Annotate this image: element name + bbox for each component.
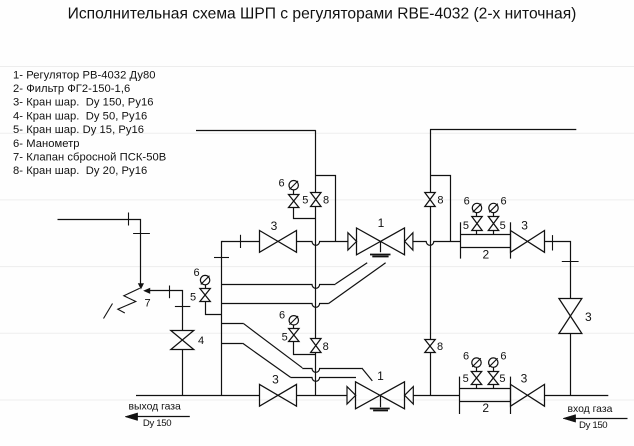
svg-text:7: 7 — [145, 298, 151, 310]
wire bottom pipe regulator to filter — [413, 395, 460, 397]
manometer 6 lower filter left — [472, 358, 481, 367]
wire bypass branch right — [431, 176, 451, 242]
wire right sensing vertical upper segment — [430, 129, 432, 192]
svg-text:6: 6 — [278, 178, 284, 190]
svg-text:4- Кран шар. Dy 50, Ру16: 4- Кран шар. Dy 50, Ру16 — [13, 110, 147, 122]
svg-text:5: 5 — [499, 373, 505, 385]
wire vent line left train — [196, 130, 316, 132]
wire vent line right train — [430, 129, 576, 131]
valve 8 right-lower — [425, 340, 435, 353]
wire upper pipe valve3 to regulator with crossing hop — [296, 242, 348, 246]
valve 3 upper-left — [260, 231, 297, 253]
flange tick before riser corner — [552, 235, 554, 250]
flange tick on relief vent vertical — [133, 233, 150, 235]
svg-text:7- Клапан сбросной ПСК-50В: 7- Клапан сбросной ПСК-50В — [13, 152, 166, 164]
regulator 1 upper - outlet cone — [405, 233, 413, 250]
wire center sensing vertical upper segment — [315, 130, 317, 193]
outlet arrow — [130, 416, 190, 418]
wire relief vertical to bottom pipe — [182, 350, 184, 396]
filter 2 upper - left plate — [460, 222, 462, 258]
relief valve 7 - spring — [118, 288, 140, 313]
relief valve 7 - arrow left and outlet line — [144, 288, 150, 293]
svg-text:Dy 150: Dy 150 — [143, 418, 171, 429]
flange tick on relief vertical — [175, 306, 190, 308]
flange tick on riser — [562, 261, 579, 263]
svg-text:8: 8 — [437, 194, 443, 206]
wire bypass branch left — [316, 176, 336, 242]
svg-text:5: 5 — [463, 220, 469, 232]
valve 5 upper filter left — [476, 213, 478, 217]
svg-text:Dy 150: Dy 150 — [579, 420, 607, 431]
svg-text:3: 3 — [585, 310, 592, 324]
filter 2 upper - body — [461, 234, 511, 236]
svg-text:1- Регулятор РВ-4032 Ду80: 1- Регулятор РВ-4032 Ду80 — [13, 69, 156, 81]
svg-text:выход газа: выход газа — [129, 401, 182, 412]
valve 3 lower-right — [511, 384, 545, 406]
valve 3 upper-right — [511, 231, 545, 253]
svg-text:5: 5 — [463, 373, 469, 385]
wire manometer stem upper-left — [293, 190, 295, 194]
regulator 1 upper - inlet cone — [348, 233, 357, 250]
svg-text:3- Кран шар. Dy 150, Ру16: 3- Кран шар. Dy 150, Ру16 — [13, 97, 154, 109]
svg-text:5: 5 — [190, 292, 196, 304]
wire relief vent horizontal — [58, 220, 141, 285]
valve 5 upper-left — [289, 195, 299, 208]
svg-text:3: 3 — [521, 371, 528, 385]
manometer 6 upper-left — [289, 181, 298, 190]
svg-text:5: 5 — [282, 332, 288, 344]
wire upper pipe to riser corner — [545, 242, 571, 299]
valve 4 — [171, 331, 194, 350]
svg-text:5: 5 — [302, 194, 308, 206]
svg-text:8: 8 — [323, 195, 329, 207]
wire upper pipe regulator to filter with crossing hop — [413, 242, 461, 246]
svg-text:8: 8 — [437, 341, 443, 353]
wire manometer connection center-lower — [294, 342, 316, 355]
wire outlet pipe — [136, 395, 260, 397]
svg-text:3: 3 — [521, 219, 528, 233]
svg-text:6- Манометр: 6- Манометр — [13, 138, 80, 150]
impulse line 2 upper regulator — [222, 304, 329, 308]
manometer 6 lower filter right — [489, 358, 498, 367]
regulator 1 lower - actuator symbol — [380, 395, 382, 407]
flange tick on relief outlet — [169, 286, 171, 299]
svg-text:6: 6 — [500, 351, 506, 363]
wire center sensing vertical lower segment — [315, 352, 317, 395]
wire manometer connection upper-left — [294, 208, 316, 219]
regulator 1 lower - outlet cone — [405, 387, 414, 404]
valve 3 riser — [559, 299, 582, 334]
svg-text:3: 3 — [272, 372, 279, 386]
valve 3 lower-left — [260, 384, 297, 406]
svg-text:вход газа: вход газа — [568, 404, 613, 415]
regulator 1 upper - actuator symbol — [380, 241, 382, 252]
svg-text:5- Кран шар. Dy 15, Ру16: 5- Кран шар. Dy 15, Ру16 — [13, 124, 144, 136]
flange tick on left return vertical — [214, 257, 229, 259]
manometer 6 upper filter right — [489, 203, 498, 212]
svg-text:6: 6 — [279, 310, 285, 322]
regulator 1 lower - body — [356, 382, 405, 409]
wire manometer stem center-lower — [293, 325, 295, 328]
wire bottom pipe valve3 to lower regulator — [296, 395, 347, 397]
valve 8 upper-left — [311, 193, 321, 207]
svg-text:1: 1 — [377, 369, 384, 383]
wire riser lower segment — [570, 333, 572, 395]
manometer 6 left return — [200, 275, 209, 284]
manometer 6 upper filter left — [472, 203, 481, 212]
svg-text:6: 6 — [193, 267, 199, 279]
valve 5 upper filter right — [493, 213, 495, 217]
filter 2 lower - right plate — [510, 377, 512, 414]
svg-text:8: 8 — [323, 341, 329, 353]
wire center sensing vertical mid segment — [315, 207, 317, 339]
regulator 1 upper - body — [357, 228, 405, 255]
wire right sensing vertical lower segment — [430, 353, 432, 396]
relief valve 7 - arrow down — [138, 284, 143, 289]
wire upper pipe from left corner to valve 3 — [222, 241, 260, 243]
wire right sensing vertical mid segment — [430, 207, 432, 340]
svg-text:6: 6 — [463, 351, 469, 363]
svg-text:Исполнительная схема ШРП с рег: Исполнительная схема ШРП с регуляторами … — [68, 6, 577, 23]
regulator 1 lower - inlet cone — [347, 387, 356, 404]
svg-text:2- Фильтр ФГ2-150-1,6: 2- Фильтр ФГ2-150-1,6 — [13, 83, 130, 95]
svg-text:2: 2 — [482, 401, 489, 415]
svg-text:6: 6 — [464, 196, 470, 208]
filter 2 upper - right plate — [510, 222, 512, 258]
flange tick on relief vent horizontal — [128, 213, 130, 226]
filter 2 lower - left plate — [459, 377, 461, 414]
flange tick upper-left pipe — [240, 235, 242, 248]
inlet arrow — [568, 418, 628, 420]
svg-text:1: 1 — [378, 216, 385, 230]
svg-text:6: 6 — [501, 196, 507, 208]
svg-text:4: 4 — [198, 335, 204, 347]
svg-text:3: 3 — [271, 219, 278, 233]
impulse line 1 upper regulator — [222, 285, 336, 289]
impulse line 3 lower regulator — [222, 323, 244, 325]
valve 5 center-lower — [289, 329, 299, 342]
valve 5 left return — [205, 285, 207, 289]
svg-text:8- Кран шар. Dy 20, Ру16: 8- Кран шар. Dy 20, Ру16 — [13, 165, 147, 177]
filter 2 lower - body — [460, 388, 510, 390]
svg-text:2: 2 — [482, 248, 489, 262]
valve 8 center-lower — [311, 339, 321, 353]
valve 8 upper-right — [425, 193, 435, 207]
valve 5 lower filter right — [493, 367, 495, 371]
impulse line 4 lower regulator — [222, 343, 243, 345]
wire manometer connection left return — [206, 302, 222, 315]
wire left train return vertical — [222, 242, 223, 396]
valve 5 lower filter left — [476, 367, 478, 371]
wire inlet pipe — [544, 395, 608, 397]
svg-text:5: 5 — [500, 220, 506, 232]
manometer 6 center-lower — [289, 316, 298, 325]
